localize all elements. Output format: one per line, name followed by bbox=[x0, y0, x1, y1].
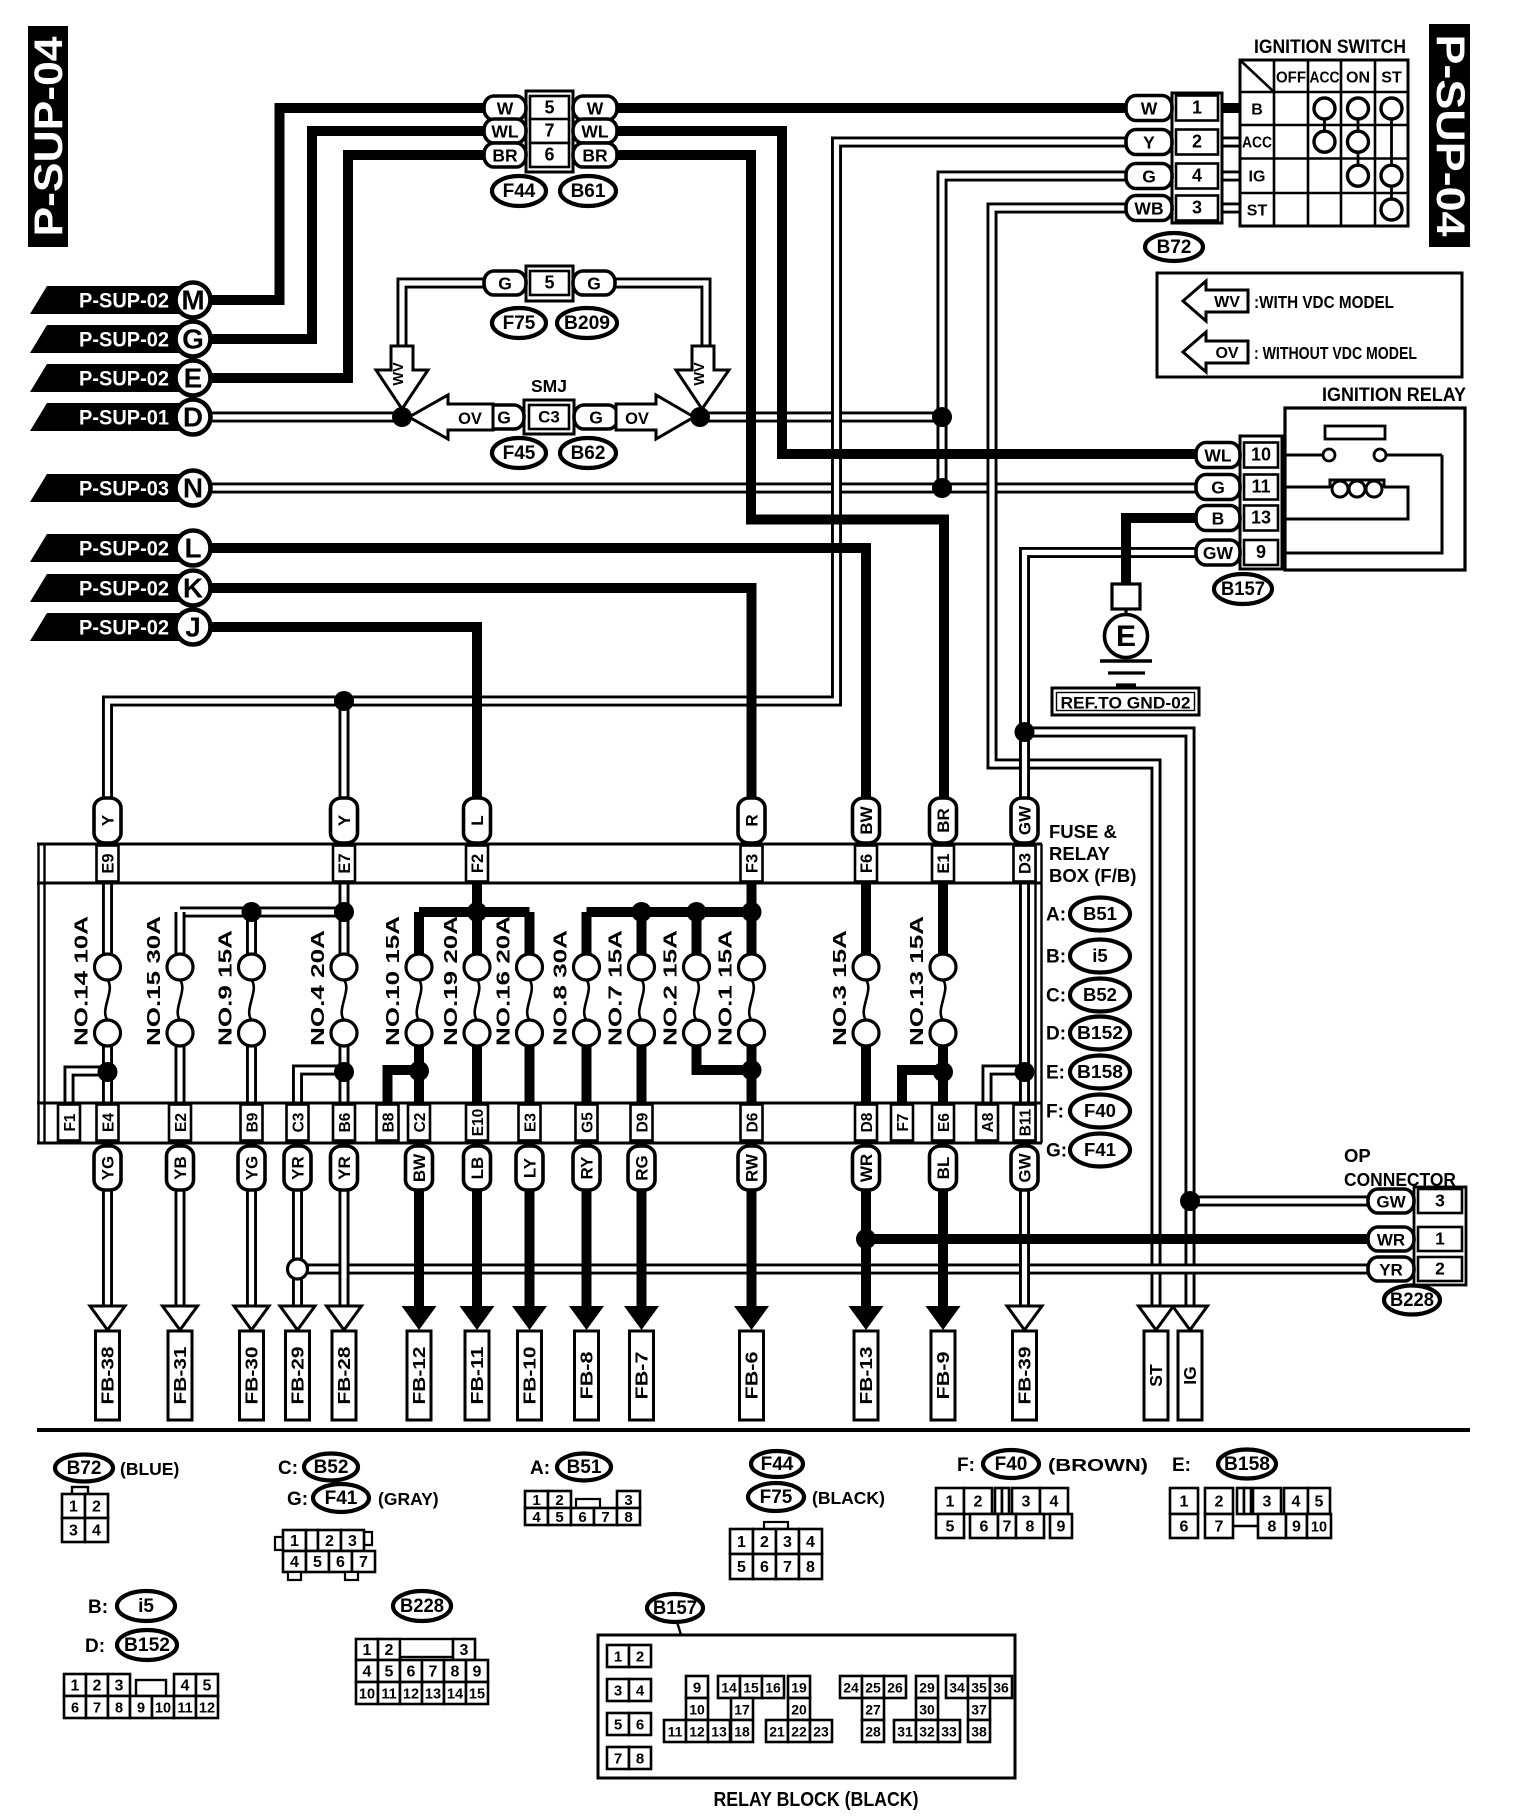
svg-text:18: 18 bbox=[734, 1724, 750, 1740]
svg-text:P-SUP-02: P-SUP-02 bbox=[79, 328, 169, 352]
svg-text:NO.16 20A: NO.16 20A bbox=[494, 916, 514, 1046]
pin E10 fuse box bottom bbox=[466, 1105, 488, 1141]
svg-text:D9: D9 bbox=[635, 1112, 652, 1132]
svg-text:5: 5 bbox=[544, 98, 554, 118]
svg-text:F2: F2 bbox=[469, 854, 487, 873]
svg-text:5: 5 bbox=[946, 1519, 955, 1536]
fuse NO.15 30A bbox=[144, 916, 193, 1046]
svg-text:G: G bbox=[587, 274, 601, 294]
pin E1 fuse box top bbox=[932, 846, 954, 882]
svg-text:ACC: ACC bbox=[1242, 135, 1272, 152]
symbol filled arrowhead bbox=[512, 1306, 547, 1330]
svg-text:E:: E: bbox=[1172, 1455, 1191, 1476]
symbol open arrowhead bbox=[90, 1306, 125, 1330]
svg-text:21: 21 bbox=[769, 1724, 785, 1740]
wire LB E10 to FB-11 bbox=[472, 1144, 482, 1309]
svg-text:OFF: OFF bbox=[1276, 70, 1306, 87]
svg-text:F7: F7 bbox=[895, 1113, 912, 1131]
svg-text:B: B bbox=[1212, 509, 1225, 529]
symbol open arrowhead bbox=[327, 1306, 362, 1330]
wire label YG below fuse box bbox=[238, 1146, 265, 1190]
wire WB3 ignition switch ST down and right to ST terminal bbox=[992, 208, 1156, 1309]
fuse NO.13 15A bbox=[907, 916, 956, 1046]
label F44 bbox=[492, 176, 546, 206]
svg-text:P-SUP-04: P-SUP-04 bbox=[1428, 35, 1472, 238]
svg-text:19: 19 bbox=[791, 1680, 807, 1696]
svg-text:FB-13: FB-13 bbox=[856, 1346, 876, 1404]
svg-text:NO.13 15A: NO.13 15A bbox=[907, 916, 927, 1046]
svg-text:7: 7 bbox=[1003, 1519, 1012, 1536]
svg-text:G: G bbox=[182, 324, 204, 355]
connector arrow P-SUP-02 E bbox=[30, 361, 211, 396]
svg-text:M: M bbox=[181, 285, 204, 316]
terminal FB-7 bbox=[630, 1331, 654, 1420]
node SMJ right junction bbox=[690, 407, 710, 427]
wire label GW below fuse box bbox=[1011, 1146, 1038, 1190]
svg-text:4: 4 bbox=[806, 1534, 815, 1551]
label FUSE & RELAY BOX (F/B) bbox=[1049, 821, 1136, 886]
node fuse NO.4 output junction bbox=[334, 1062, 354, 1082]
label F75 bbox=[492, 308, 546, 338]
terminal FB-10 bbox=[518, 1331, 542, 1420]
svg-text:OV: OV bbox=[458, 410, 482, 428]
wire label YR below fuse box bbox=[284, 1146, 311, 1190]
wire fuse NO.3 to D8 bbox=[861, 1044, 871, 1106]
svg-text:: WITHOUT VDC MODEL: : WITHOUT VDC MODEL bbox=[1254, 343, 1417, 363]
svg-text:GW: GW bbox=[1203, 543, 1234, 563]
wire hook to F1 pin bbox=[69, 1071, 108, 1106]
svg-text:B52: B52 bbox=[314, 1457, 349, 1478]
svg-text:D3: D3 bbox=[1017, 853, 1035, 874]
svg-text:P-SUP-02: P-SUP-02 bbox=[79, 367, 169, 391]
svg-text:3: 3 bbox=[1435, 1191, 1445, 1211]
svg-text:11: 11 bbox=[177, 1701, 192, 1717]
svg-text:F40: F40 bbox=[1084, 1100, 1116, 1121]
svg-text:FB-10: FB-10 bbox=[520, 1346, 540, 1404]
svg-text:6: 6 bbox=[980, 1519, 989, 1536]
svg-text:B62: B62 bbox=[571, 443, 606, 464]
svg-text:D8: D8 bbox=[859, 1112, 876, 1132]
svg-text:14: 14 bbox=[721, 1680, 737, 1696]
svg-text:NO.1 15A: NO.1 15A bbox=[716, 930, 736, 1046]
wire E7 stub from Y network junction bbox=[339, 701, 350, 882]
wire BL E6 to FB-9 bbox=[938, 1144, 948, 1309]
svg-text:D:: D: bbox=[1046, 1024, 1066, 1045]
label C: B52 bbox=[1046, 979, 1130, 1012]
svg-text:12: 12 bbox=[199, 1701, 215, 1717]
svg-text:B72: B72 bbox=[67, 1458, 102, 1479]
svg-text:E: E bbox=[1116, 620, 1136, 653]
wire BR from P-SUP-02 E to fuse bus E1 bbox=[210, 155, 944, 882]
svg-text:5: 5 bbox=[313, 1554, 322, 1571]
svg-text:B:: B: bbox=[1046, 947, 1066, 968]
label G: F41 (GRAY) bbox=[287, 1484, 439, 1512]
svg-text:10: 10 bbox=[359, 1687, 375, 1703]
wire F2 junction row feeding NO.10 NO.16 bbox=[419, 912, 530, 956]
pin B11 fuse box bottom bbox=[1014, 1105, 1036, 1141]
svg-text:Y: Y bbox=[1143, 133, 1155, 153]
wire label RY below fuse box bbox=[573, 1146, 600, 1190]
svg-text:YR: YR bbox=[335, 1156, 354, 1180]
wire label LB below fuse box bbox=[464, 1146, 491, 1190]
svg-text:27: 27 bbox=[865, 1702, 881, 1718]
svg-text:4: 4 bbox=[181, 1678, 190, 1695]
svg-text:P-SUP-04: P-SUP-04 bbox=[27, 36, 71, 237]
svg-text:8: 8 bbox=[1268, 1519, 1277, 1536]
svg-text:BL: BL bbox=[934, 1157, 953, 1180]
svg-text:GW: GW bbox=[1016, 1152, 1035, 1182]
connector arrow P-SUP-02 J bbox=[30, 610, 211, 645]
svg-text:NO.8 30A: NO.8 30A bbox=[551, 930, 571, 1046]
symbol filled arrowhead bbox=[624, 1306, 659, 1330]
svg-text:11: 11 bbox=[668, 1724, 683, 1740]
svg-text:OV: OV bbox=[625, 410, 649, 428]
wire label BL below fuse box bbox=[930, 1146, 957, 1190]
svg-text:WL: WL bbox=[1204, 446, 1232, 466]
svg-text:J: J bbox=[185, 612, 201, 643]
svg-text:FUSE &: FUSE & bbox=[1049, 821, 1117, 842]
svg-text:F44: F44 bbox=[761, 1454, 794, 1475]
svg-text:4: 4 bbox=[1292, 1494, 1301, 1511]
node YR open splice junction bbox=[288, 1259, 308, 1279]
svg-text:WR: WR bbox=[1377, 1231, 1405, 1250]
svg-text:(BLACK): (BLACK) bbox=[812, 1488, 885, 1508]
svg-text:G:: G: bbox=[1046, 1141, 1067, 1162]
svg-text:WL: WL bbox=[581, 122, 609, 142]
svg-text:G: G bbox=[497, 408, 511, 428]
wire BW C2 to FB-12 bbox=[414, 1144, 424, 1309]
svg-text:GW: GW bbox=[1016, 805, 1035, 835]
svg-text:FB-29: FB-29 bbox=[288, 1346, 308, 1404]
wire GW branch to IG terminal bbox=[1025, 732, 1191, 1309]
wire label YB below fuse box bbox=[167, 1146, 194, 1190]
svg-text:12: 12 bbox=[403, 1687, 419, 1703]
svg-text:22: 22 bbox=[791, 1724, 807, 1740]
svg-text:13: 13 bbox=[711, 1724, 727, 1740]
svg-text:36: 36 bbox=[993, 1680, 1009, 1696]
node fuse feed junction NO.7 bbox=[632, 902, 652, 922]
wire WR to OP connector pin 1 bbox=[866, 1234, 1370, 1244]
label REF.TO GND-02 bbox=[1052, 688, 1199, 715]
svg-text:8: 8 bbox=[451, 1664, 460, 1681]
svg-text:2: 2 bbox=[1435, 1259, 1445, 1279]
symbol open arrowhead bbox=[1007, 1306, 1042, 1330]
svg-text:YB: YB bbox=[171, 1156, 190, 1180]
svg-text:4: 4 bbox=[363, 1664, 372, 1681]
svg-text:RG: RG bbox=[633, 1155, 652, 1181]
wire G from F75 left to WV arrow bbox=[402, 283, 486, 352]
svg-text:38: 38 bbox=[971, 1724, 987, 1740]
svg-text:E6: E6 bbox=[936, 1113, 953, 1132]
svg-text:3: 3 bbox=[1192, 198, 1202, 218]
wire YB E2 to FB-31 bbox=[175, 1144, 186, 1309]
svg-text:9: 9 bbox=[473, 1664, 482, 1681]
pin E9 fuse box top bbox=[97, 846, 119, 882]
connector pinout F40 bbox=[936, 1488, 1072, 1538]
label B209 bbox=[557, 308, 617, 338]
wire B13 ignition relay to ground E bbox=[1126, 518, 1198, 586]
svg-text:5: 5 bbox=[203, 1678, 212, 1695]
wire junction to fuse NO.9 bbox=[246, 912, 257, 956]
svg-text:B152: B152 bbox=[1077, 1022, 1123, 1043]
svg-text:A8: A8 bbox=[980, 1112, 997, 1132]
svg-text:P-SUP-02: P-SUP-02 bbox=[79, 289, 169, 313]
svg-text:NO.3 15A: NO.3 15A bbox=[830, 930, 850, 1046]
svg-text:E3: E3 bbox=[523, 1113, 540, 1132]
svg-text:NO.2 15A: NO.2 15A bbox=[661, 930, 681, 1046]
svg-text:REF.TO GND-02: REF.TO GND-02 bbox=[1061, 695, 1191, 713]
svg-text:A:: A: bbox=[530, 1458, 550, 1479]
pin B6 fuse box bottom bbox=[333, 1105, 355, 1141]
svg-text:35: 35 bbox=[971, 1680, 987, 1696]
wire label WR below fuse box bbox=[853, 1146, 880, 1190]
svg-text:6: 6 bbox=[760, 1559, 769, 1576]
svg-text:IG: IG bbox=[1180, 1366, 1200, 1384]
symbol open arrowhead IG bbox=[1173, 1306, 1208, 1330]
svg-text:G: G bbox=[498, 274, 512, 294]
svg-text:4: 4 bbox=[1192, 166, 1202, 186]
fuse NO.19 20A bbox=[441, 916, 490, 1046]
label F75 (BLACK) bbox=[748, 1483, 885, 1511]
label D: B152 bbox=[85, 1630, 177, 1660]
terminal IG bbox=[1178, 1331, 1202, 1420]
svg-text:B157: B157 bbox=[653, 1598, 697, 1619]
svg-text:1: 1 bbox=[1435, 1229, 1445, 1249]
svg-text:5: 5 bbox=[614, 1717, 622, 1734]
svg-text:YR: YR bbox=[289, 1156, 308, 1180]
connector pinout B152 bbox=[64, 1674, 218, 1718]
fuse NO.1 15A bbox=[716, 930, 765, 1046]
svg-text:WV: WV bbox=[692, 362, 708, 386]
wire fuse NO.4 to B6 bbox=[339, 1044, 350, 1106]
svg-text:E: E bbox=[184, 363, 203, 394]
wire label BW below fuse box bbox=[406, 1146, 433, 1190]
svg-text:1: 1 bbox=[71, 1678, 80, 1695]
svg-text:3: 3 bbox=[460, 1642, 469, 1659]
separator line bbox=[37, 1428, 1470, 1432]
terminal FB-8 bbox=[575, 1331, 599, 1420]
pin C3 fuse box bottom bbox=[287, 1105, 309, 1141]
svg-text:32: 32 bbox=[919, 1724, 935, 1740]
svg-text:GW: GW bbox=[1376, 1193, 1406, 1212]
label B: i5 bbox=[88, 1591, 175, 1621]
terminal ST bbox=[1144, 1331, 1168, 1420]
svg-text:B9: B9 bbox=[245, 1112, 262, 1132]
terminal FB-9 bbox=[931, 1331, 955, 1420]
symbol filled arrowhead bbox=[569, 1306, 604, 1330]
svg-text:D6: D6 bbox=[745, 1112, 762, 1132]
svg-text:6: 6 bbox=[1180, 1519, 1189, 1536]
connector B157 ignition relay pins bbox=[1196, 436, 1282, 569]
wire fuse NO.1 to D6 bbox=[747, 1044, 757, 1106]
svg-text:B158: B158 bbox=[1077, 1061, 1123, 1082]
svg-text:YG: YG bbox=[243, 1156, 262, 1181]
svg-text:FB-30: FB-30 bbox=[242, 1346, 262, 1404]
wire label BR at fuse box top bbox=[930, 798, 957, 843]
terminal FB-28 bbox=[332, 1331, 356, 1420]
svg-text:FB-31: FB-31 bbox=[170, 1346, 190, 1404]
svg-text:F44: F44 bbox=[503, 181, 536, 202]
svg-text:7: 7 bbox=[429, 1664, 438, 1681]
connector arrow P-SUP-02 K bbox=[30, 571, 211, 606]
svg-text:P-SUP-02: P-SUP-02 bbox=[79, 537, 169, 561]
svg-text:i5: i5 bbox=[1092, 945, 1107, 966]
svg-text:E4: E4 bbox=[101, 1113, 118, 1132]
svg-text:NO.4 20A: NO.4 20A bbox=[308, 930, 328, 1046]
node fuse feed junction NO.4/E7 bbox=[334, 902, 354, 922]
label B157 bbox=[647, 1594, 703, 1622]
svg-text:D:: D: bbox=[85, 1636, 105, 1657]
svg-text:FB-12: FB-12 bbox=[409, 1346, 429, 1404]
svg-text:NO.7 15A: NO.7 15A bbox=[606, 930, 626, 1046]
svg-text:10: 10 bbox=[689, 1702, 705, 1718]
label B72 (BLUE) bbox=[55, 1455, 179, 1482]
wire F3 junction row feeding NO.8 NO.7 NO.2 bbox=[587, 912, 752, 956]
svg-text:D: D bbox=[183, 402, 203, 433]
svg-text:C:: C: bbox=[278, 1458, 298, 1479]
pin E4 fuse box bottom bbox=[97, 1105, 119, 1141]
pin D3 fuse box top bbox=[1014, 846, 1036, 882]
svg-text:F75: F75 bbox=[503, 313, 536, 334]
symbol open arrowhead bbox=[163, 1306, 198, 1330]
svg-text:B157: B157 bbox=[1221, 579, 1265, 600]
connector pinout B158 bbox=[1170, 1488, 1331, 1538]
svg-text:B209: B209 bbox=[564, 313, 610, 334]
symbol WV arrow right (with VDC) bbox=[676, 346, 729, 409]
svg-text:RY: RY bbox=[578, 1156, 597, 1180]
svg-text:1: 1 bbox=[69, 1499, 78, 1516]
fuse NO.4 20A bbox=[308, 930, 357, 1046]
label G: F41 bbox=[1046, 1134, 1130, 1167]
svg-text:E:: E: bbox=[1046, 1063, 1065, 1084]
wire E7 junction row feeding NO.15 NO.9 bbox=[180, 907, 344, 918]
label B228 bbox=[1384, 1286, 1440, 1315]
svg-text:5: 5 bbox=[385, 1664, 394, 1681]
connector pinout B51 bbox=[525, 1491, 640, 1526]
svg-text:B: B bbox=[1251, 102, 1263, 119]
component fuse and relay box outline bbox=[37, 844, 1042, 1143]
svg-text:WV: WV bbox=[1214, 294, 1240, 311]
svg-text:G5: G5 bbox=[580, 1112, 597, 1133]
wire fuse NO.15 to E2 bbox=[175, 1044, 186, 1106]
svg-text:P-SUP-03: P-SUP-03 bbox=[79, 477, 169, 501]
svg-text:YR: YR bbox=[1379, 1261, 1403, 1280]
fuse NO.8 30A bbox=[551, 930, 600, 1046]
wire label GW at fuse box top bbox=[1011, 798, 1038, 843]
wire F6 to fuse NO.3 bbox=[861, 880, 871, 956]
pin F3 fuse box top bbox=[741, 846, 763, 882]
connector arrow P-SUP-02 L bbox=[30, 531, 211, 566]
svg-text:B228: B228 bbox=[400, 1596, 444, 1617]
svg-text:i5: i5 bbox=[138, 1596, 154, 1617]
wire SMJ to junction at G4 bbox=[702, 412, 940, 423]
wire YG B9 to FB-30 bbox=[246, 1144, 257, 1309]
svg-text:9: 9 bbox=[1057, 1519, 1066, 1536]
svg-text:F45: F45 bbox=[503, 443, 536, 464]
label C: B52 bbox=[278, 1454, 358, 1481]
svg-text:2: 2 bbox=[636, 1649, 644, 1666]
fuse NO.9 15A bbox=[216, 930, 265, 1046]
node fuse feed junction F2 bbox=[467, 902, 487, 922]
terminal FB-6 bbox=[740, 1331, 764, 1420]
wire YR C3 to FB-29 bbox=[292, 1144, 303, 1309]
label F44 bbox=[751, 1451, 803, 1477]
svg-text:G: G bbox=[1211, 478, 1225, 498]
node fuse NO.1 output junction bbox=[742, 1060, 762, 1080]
wire R from P-SUP-02 K to fuse bus F3 bbox=[210, 588, 752, 882]
svg-text:4: 4 bbox=[290, 1554, 299, 1571]
wire label Y at fuse box top bbox=[331, 798, 358, 843]
svg-text:B:: B: bbox=[88, 1597, 108, 1618]
svg-text:P-SUP-01: P-SUP-01 bbox=[79, 406, 169, 430]
svg-text:8: 8 bbox=[806, 1559, 815, 1576]
svg-text:8: 8 bbox=[636, 1751, 644, 1768]
fuse NO.7 15A bbox=[606, 930, 655, 1046]
wire junction to fuse NO.15 bbox=[175, 912, 186, 956]
svg-text:B6: B6 bbox=[337, 1112, 354, 1132]
svg-text:Y: Y bbox=[335, 814, 354, 826]
pin F1 fuse box bottom bbox=[58, 1105, 80, 1141]
svg-text:E9: E9 bbox=[100, 853, 118, 873]
svg-text:6: 6 bbox=[636, 1717, 644, 1734]
svg-text:ST: ST bbox=[1247, 203, 1268, 220]
symbol open arrowhead ST bbox=[1139, 1306, 1174, 1330]
wire D3 to B11 inside fuse box bbox=[1019, 880, 1030, 1106]
svg-text:11: 11 bbox=[1251, 477, 1270, 497]
svg-text:FB-38: FB-38 bbox=[98, 1346, 118, 1404]
connector pinout B72 bbox=[62, 1487, 108, 1542]
svg-text:4: 4 bbox=[532, 1509, 541, 1526]
svg-text:16: 16 bbox=[765, 1680, 781, 1696]
svg-text:13: 13 bbox=[425, 1687, 441, 1703]
fuse NO.3 15A bbox=[830, 930, 879, 1046]
svg-text:WL: WL bbox=[491, 122, 519, 142]
svg-text:4: 4 bbox=[1050, 1494, 1059, 1511]
label B72 bbox=[1145, 233, 1203, 261]
label F: F40 bbox=[1046, 1095, 1130, 1128]
wire N row P-SUP-03 to ignition relay G pin 11 bbox=[210, 483, 1198, 494]
fuse NO.2 15A bbox=[661, 930, 710, 1046]
wire LY E3 to FB-10 bbox=[525, 1144, 535, 1309]
fuse NO.14 10A bbox=[72, 916, 121, 1046]
symbol WV arrow left (with VDC) bbox=[376, 346, 428, 409]
svg-text:OP: OP bbox=[1344, 1145, 1371, 1166]
svg-text:5: 5 bbox=[1315, 1494, 1324, 1511]
svg-text:(BLUE): (BLUE) bbox=[120, 1459, 179, 1479]
svg-text:30: 30 bbox=[919, 1702, 935, 1718]
pin E7 fuse box top bbox=[333, 846, 355, 882]
pin D9 fuse box bottom bbox=[631, 1105, 653, 1141]
svg-text:IG: IG bbox=[1249, 169, 1266, 186]
svg-text:SMJ: SMJ bbox=[531, 376, 567, 396]
svg-text:25: 25 bbox=[865, 1680, 881, 1696]
svg-text:E10: E10 bbox=[470, 1109, 487, 1137]
svg-text:G: G bbox=[589, 408, 603, 428]
wire label YG below fuse box bbox=[94, 1146, 121, 1190]
wire RY G5 to FB-8 bbox=[582, 1144, 592, 1309]
svg-text:3: 3 bbox=[1263, 1494, 1272, 1511]
wire fuse NO.7 to D9 bbox=[637, 1044, 647, 1106]
svg-text:2: 2 bbox=[974, 1494, 983, 1511]
terminal FB-39 bbox=[1013, 1331, 1037, 1420]
pin F6 fuse box top bbox=[855, 846, 877, 882]
svg-text:14: 14 bbox=[447, 1687, 463, 1703]
svg-text:W: W bbox=[587, 99, 604, 119]
wire RG D9 to FB-7 bbox=[637, 1144, 647, 1309]
svg-text:9: 9 bbox=[137, 1701, 145, 1717]
node G4/D junction bbox=[932, 407, 952, 427]
svg-text:WV: WV bbox=[391, 362, 407, 386]
